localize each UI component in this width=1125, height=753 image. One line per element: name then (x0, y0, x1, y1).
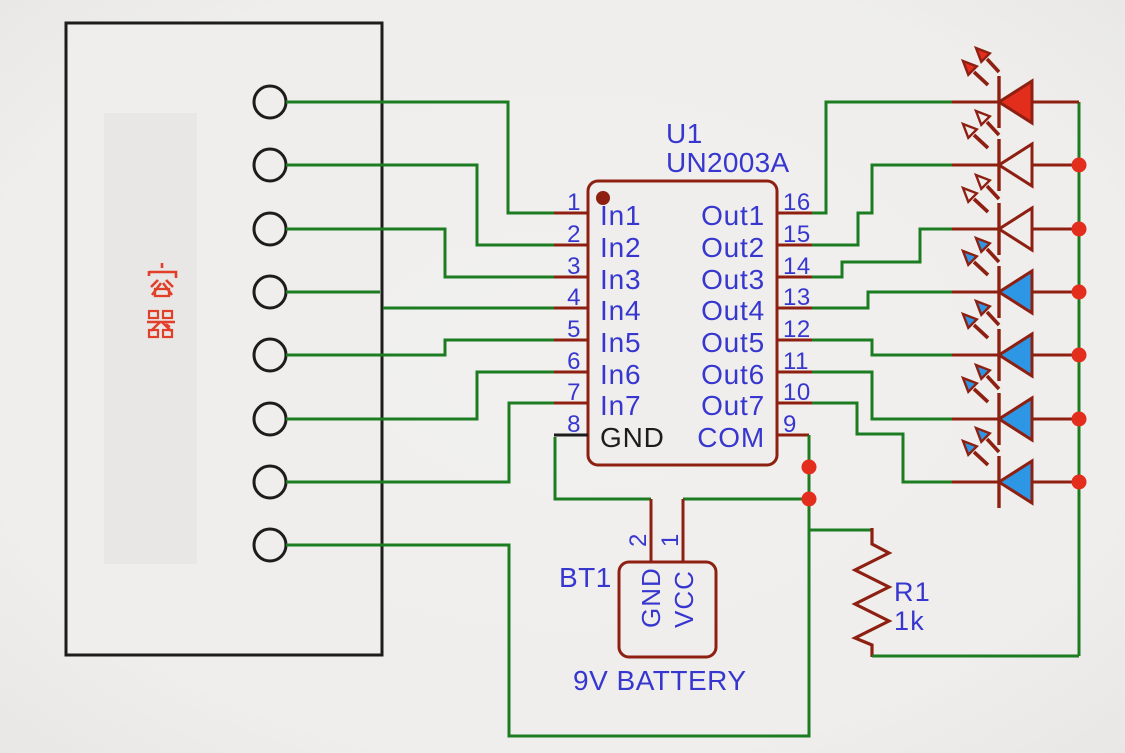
U1 refdes (666, 118, 703, 149)
wire COM junction vertical (808, 435, 811, 737)
wire terminal3 to In3 (286, 229, 554, 277)
wire terminal6 to In6 (286, 372, 554, 419)
U1 pin 9 number (783, 411, 797, 438)
container body (66, 23, 382, 655)
junction dot LED2 (1072, 158, 1087, 173)
U1 pin 10 stub (777, 402, 812, 405)
U1 pin 7 stub (554, 402, 588, 405)
wire Out2 to LED2 (812, 165, 952, 245)
svg-text:Out2: Out2 (701, 232, 765, 263)
svg-text:3: 3 (567, 253, 581, 280)
U1 pin 4 number (567, 284, 581, 311)
U1 pin 15 number (783, 221, 811, 248)
U1 pin label In6 (600, 359, 641, 390)
R1 value 1k (894, 606, 925, 636)
svg-text:10: 10 (783, 379, 811, 406)
U1 pin 3 stub (554, 276, 588, 279)
svg-text:In4: In4 (600, 295, 641, 326)
U1 pin label In1 (600, 200, 641, 231)
battery pin name GND (636, 567, 666, 628)
U1 pin 8 stub (554, 434, 588, 437)
U1 pin label Out3 (701, 264, 765, 295)
wire VCC to junction (683, 498, 809, 501)
svg-text:9V BATTERY: 9V BATTERY (573, 665, 747, 696)
wire terminal7 to In7 (286, 403, 554, 482)
svg-text:In7: In7 (600, 390, 641, 421)
svg-text:UN2003A: UN2003A (666, 147, 790, 178)
U1 pin label Out7 (701, 390, 765, 421)
svg-text:Out3: Out3 (701, 264, 765, 295)
U1 pin 2 number (567, 221, 581, 248)
wire Out5 to LED5 (812, 340, 952, 355)
svg-text:1: 1 (657, 534, 684, 547)
junction dot LED3 (1072, 222, 1087, 237)
svg-text:GND: GND (636, 567, 666, 628)
resistor R1 (855, 528, 889, 657)
junction dot LED4 (1072, 285, 1087, 300)
U1 pin 9 COM stub (777, 434, 809, 437)
wire to In4 (383, 307, 554, 310)
U1 pin 8 number (567, 411, 581, 438)
battery pin name VCC (669, 570, 699, 628)
U1 pin label COM (697, 422, 765, 453)
U1 pin 16 stub (777, 212, 812, 215)
LED D7 (952, 428, 1079, 508)
svg-text:16: 16 (783, 189, 811, 216)
U1 pin 3 number (567, 253, 581, 280)
container terminal 3 (254, 213, 286, 245)
wire Out4 to LED4 (812, 292, 952, 308)
battery BT1 pin 1 lead (682, 499, 685, 562)
U1 pin label Out1 (701, 200, 765, 231)
battery refdes BT1 (559, 562, 612, 593)
U1 pin 12 number (783, 316, 811, 343)
wire Out6 to LED6 (812, 372, 952, 419)
svg-text:5: 5 (567, 316, 581, 343)
svg-text:GND: GND (600, 422, 665, 453)
svg-text:In3: In3 (600, 264, 641, 295)
U1 pin label Out5 (701, 327, 765, 358)
U1 pin 7 number (567, 379, 581, 406)
container terminal 5 (254, 339, 286, 371)
container terminal 8 (254, 529, 286, 561)
svg-text:Out4: Out4 (701, 295, 765, 326)
svg-text:7: 7 (567, 379, 581, 406)
U1 pin 11 stub (777, 371, 812, 374)
U1 pin 6 stub (554, 371, 588, 374)
LED cathode bus (1078, 102, 1081, 656)
svg-text:Out5: Out5 (701, 327, 765, 358)
U1 pin label In2 (600, 232, 641, 263)
U1 pin label In4 (600, 295, 641, 326)
R1 refdes (894, 577, 931, 607)
container label 容 (149, 263, 176, 296)
container inner panel (104, 113, 197, 564)
wire Out1 to LED1 (812, 102, 952, 213)
U1 pin-1 dot (596, 191, 610, 205)
U1 pin label Out6 (701, 359, 765, 390)
svg-text:R1: R1 (894, 577, 931, 607)
junction dot LED6 (1072, 412, 1087, 427)
U1 pin label Out2 (701, 232, 765, 263)
svg-text:4: 4 (567, 284, 581, 311)
svg-text:Out1: Out1 (701, 200, 765, 231)
battery value 9V BATTERY (573, 665, 747, 696)
container terminal 1 (254, 86, 286, 118)
svg-text:14: 14 (783, 253, 811, 280)
svg-text:In1: In1 (600, 200, 641, 231)
svg-text:Out6: Out6 (701, 359, 765, 390)
junction dot A (802, 460, 817, 475)
wire terminal4 toward In4 (286, 291, 380, 294)
U1 value UN2003A (666, 147, 790, 178)
U1 pin 5 stub (554, 339, 588, 342)
svg-text:6: 6 (567, 348, 581, 375)
wire terminal1 to In1 (286, 102, 554, 213)
junction dot LED5 (1072, 348, 1087, 363)
svg-text:1k: 1k (894, 606, 925, 636)
svg-text:In2: In2 (600, 232, 641, 263)
U1 pin 1 stub (554, 212, 588, 215)
U1 pin 4 stub (554, 307, 588, 310)
junction dot B (802, 492, 817, 507)
wire GND pin8 to battery pin2 (555, 437, 651, 499)
U1 pin 14 stub (777, 276, 812, 279)
wire terminal5 to In5 (286, 340, 554, 355)
svg-text:12: 12 (783, 316, 811, 343)
U1 pin 13 stub (777, 307, 812, 310)
svg-text:2: 2 (625, 534, 652, 547)
svg-text:Out7: Out7 (701, 390, 765, 421)
U1 pin 13 number (783, 284, 811, 311)
wire Out7 to LED7 (812, 403, 952, 482)
svg-text:U1: U1 (666, 118, 703, 149)
svg-text:In5: In5 (600, 327, 641, 358)
LED D2 (952, 111, 1079, 191)
U1 pin 10 number (783, 379, 811, 406)
wire terminal8 bottom loop (286, 436, 809, 736)
container terminal 6 (254, 403, 286, 435)
U1 pin 12 stub (777, 339, 812, 342)
U1 pin label In3 (600, 264, 641, 295)
svg-text:In6: In6 (600, 359, 641, 390)
svg-text:1: 1 (567, 189, 581, 216)
container terminal 4 (254, 276, 286, 308)
svg-text:COM: COM (697, 422, 765, 453)
LED D6 (952, 365, 1079, 445)
battery BT1 body (619, 562, 716, 657)
battery pin 1 number (657, 534, 684, 547)
svg-text:2: 2 (567, 221, 581, 248)
svg-text:13: 13 (783, 284, 811, 311)
U1 pin 15 stub (777, 244, 812, 247)
op-amp U1 body (588, 181, 777, 465)
U1 pin 11 number (783, 348, 809, 375)
LED D4 (952, 238, 1079, 318)
LED D5 (952, 301, 1079, 381)
svg-text:8: 8 (567, 411, 581, 438)
U1 pin 16 number (783, 189, 811, 216)
container terminal 2 (254, 149, 286, 181)
container terminal 7 (254, 466, 286, 498)
svg-text:BT1: BT1 (559, 562, 612, 593)
U1 pin 2 stub (554, 244, 588, 247)
U1 pin 6 number (567, 348, 581, 375)
wire Out3 to LED3 (812, 229, 952, 277)
U1 pin label In5 (600, 327, 641, 358)
U1 pin 5 number (567, 316, 581, 343)
battery pin 2 number (625, 534, 652, 547)
wire junction to R1 top (809, 529, 872, 532)
U1 pin 1 number (567, 189, 581, 216)
U1 pin label In7 (600, 390, 641, 421)
junction dot LED7 (1072, 475, 1087, 490)
U1 pin label Out4 (701, 295, 765, 326)
U1 pin label GND (600, 422, 665, 453)
wire terminal2 to In2 (286, 165, 554, 245)
container label 器 (147, 311, 175, 337)
svg-text:15: 15 (783, 221, 811, 248)
svg-text:VCC: VCC (669, 570, 699, 628)
battery BT1 pin 2 lead (650, 499, 653, 562)
U1 pin 14 number (783, 253, 811, 280)
LED D1 (952, 48, 1079, 128)
wire R1 bottom to bus (872, 655, 1079, 658)
svg-text:11: 11 (783, 348, 809, 375)
LED D3 (952, 175, 1079, 255)
